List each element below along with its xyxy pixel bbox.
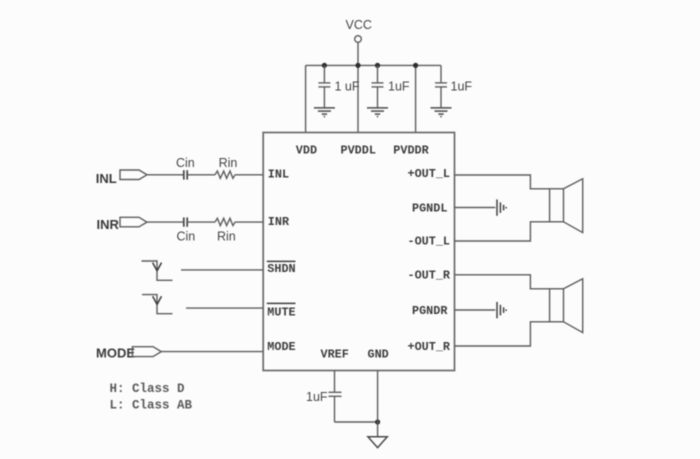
svg-text:1uF: 1uF [451,80,473,94]
junction GND [375,419,380,424]
wire INL to Cin [147,174,183,176]
junction C2 [375,63,380,68]
svg-text:INL: INL [268,168,289,182]
wire to SHDN pin [181,269,263,271]
svg-text:INR: INR [97,217,120,232]
svg-text:1uF: 1uF [388,80,410,94]
connector INR [120,217,147,227]
svg-text:SHDN: SHDN [267,262,295,276]
junction PVDDR [413,63,418,68]
overline MUTE [267,302,296,304]
falling edge symbol SHDN [142,261,173,280]
wire VREF down [334,371,336,392]
junction VCC [355,63,360,68]
capacitor Cin (right ch) [184,217,187,226]
svg-text:VDD: VDD [296,144,317,158]
connector INL [120,170,147,180]
speaker SPK1 coil [550,189,564,222]
svg-text:Rin: Rin [217,229,236,243]
wire C4 to GND net [335,421,378,423]
wire MODE to pin [161,351,263,353]
wire power bus [306,64,441,66]
overline SHDN [267,260,296,262]
svg-text:+OUT_R: +OUT_R [408,340,451,354]
ground under C1 [314,108,335,117]
wire -OUT_R to speaker [455,275,550,289]
svg-text:GND: GND [368,347,389,361]
svg-text:INL: INL [96,171,117,186]
ground triangle [368,437,387,448]
svg-text:PGNDL: PGNDL [412,201,447,215]
svg-text:Cin: Cin [176,156,195,170]
svg-text:MODE: MODE [96,345,135,360]
speaker SPK2 cone [564,279,583,333]
wire PGNDL [455,207,496,209]
wire VDD drop [305,65,307,132]
speaker SPK2 coil [550,289,564,322]
svg-text:PVDDR: PVDDR [393,144,429,158]
connector MODE [132,347,161,357]
svg-text:+OUT_L: +OUT_L [408,167,450,181]
wire VCC down to bus [357,42,359,65]
svg-text:VCC: VCC [346,18,372,32]
wire PVDDR drop [415,65,417,132]
svg-text:VREF: VREF [321,347,349,361]
chassis ground PGNDL [497,199,506,215]
ground under C2 [367,108,388,117]
IC U1 body [263,133,454,371]
speaker SPK1 cone [564,179,583,233]
svg-text:H: Class D: H: Class D [110,382,186,396]
svg-text:MODE: MODE [267,340,295,354]
wire PVDDL drop [357,65,359,132]
wire Cin to Rin [188,221,215,223]
svg-text:-OUT_R: -OUT_R [408,268,451,282]
wire +OUT_L to speaker [455,175,550,189]
capacitor C3 1uF [435,65,447,107]
chassis ground PGNDR [497,302,506,318]
wire PGNDR [455,309,496,311]
svg-text:PVDDL: PVDDL [341,144,376,158]
wire -OUT_L to speaker [455,222,550,241]
terminal VCC [355,36,362,43]
wire Rin to INL pin [235,174,263,176]
svg-text:Cin: Cin [177,229,196,243]
svg-text:INR: INR [268,215,290,229]
capacitor C4 1uF [329,392,342,422]
junction C1 [322,63,327,68]
svg-text:PGNDR: PGNDR [412,304,448,318]
svg-text:MUTE: MUTE [267,305,295,319]
capacitor Cin (left) [184,170,187,179]
wire +OUT_R to speaker [455,322,550,346]
wire to MUTE pin [186,307,263,309]
ground under C3 [431,108,452,117]
wire INR to Cin [147,221,183,223]
resistor Rin (left) [215,171,235,178]
wire GND down [377,371,379,437]
wire Cin to Rin [188,174,215,176]
capacitor C1 1uF [318,65,330,107]
wire Rin to INR pin [235,221,263,223]
svg-text:Rin: Rin [219,156,238,170]
falling edge symbol MUTE [142,295,173,314]
resistor Rin (right ch) [215,218,235,225]
svg-text:1 uF: 1 uF [335,80,360,94]
svg-text:L: Class AB: L: Class AB [110,399,193,413]
svg-text:1uF: 1uF [306,390,328,404]
svg-text:-OUT_L: -OUT_L [408,235,450,249]
capacitor C2 1uF [372,65,384,107]
